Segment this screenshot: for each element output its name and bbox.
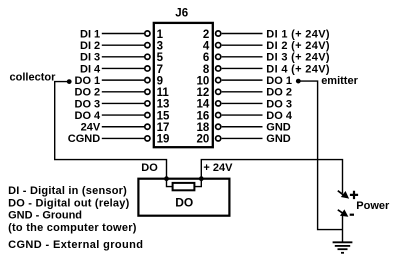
svg-text:10: 10 — [197, 75, 210, 87]
relay box DO — [138, 179, 229, 216]
wire DI 4 to pin 7 — [102, 67, 145, 69]
wire 24V to pin 17 — [102, 126, 145, 128]
pin 3 pad — [145, 43, 150, 48]
wire emitter from DO 1 down to ground rail — [298, 81, 342, 230]
svg-text:GND - Ground: GND - Ground — [8, 210, 82, 222]
svg-text:24V: 24V — [81, 122, 101, 134]
pin 7 pad — [145, 66, 150, 71]
svg-text:16: 16 — [197, 110, 210, 122]
pin 12 pad — [216, 89, 221, 94]
pin 5 pad — [145, 54, 150, 59]
svg-text:CGND: CGND — [68, 133, 100, 145]
svg-text:DO 2: DO 2 — [75, 87, 101, 99]
pin 2 pad — [216, 31, 221, 36]
wire DI 1 to pin 1 — [102, 33, 145, 35]
svg-text:DI 4: DI 4 — [80, 63, 101, 75]
svg-text:DO 3: DO 3 — [266, 98, 292, 110]
svg-text:collector: collector — [10, 72, 57, 84]
label + (power plus) — [350, 191, 358, 199]
svg-text:DI 3 (+ 24V): DI 3 (+ 24V) — [266, 52, 330, 64]
svg-text:6: 6 — [203, 52, 209, 64]
svg-text:DO: DO — [141, 162, 158, 174]
wire pin 12 to DO 2 — [222, 91, 263, 93]
wire pin 2 to DI 1 (+ 24V) — [222, 33, 263, 35]
label - (power minus) — [350, 214, 354, 216]
wire pin 20 to GND — [222, 137, 263, 139]
pin 19 pad — [145, 136, 150, 141]
wire DI 3 to pin 5 — [102, 56, 145, 58]
svg-text:Power: Power — [356, 200, 390, 212]
svg-text:13: 13 — [157, 99, 170, 111]
junction dot DO node on box top — [164, 176, 169, 181]
svg-text:DI 2: DI 2 — [80, 40, 100, 52]
svg-text:17: 17 — [157, 122, 170, 134]
ground symbol — [333, 242, 353, 253]
svg-text:14: 14 — [197, 99, 210, 111]
Power minus terminal arrow — [338, 210, 344, 214]
pin 14 pad — [216, 101, 221, 106]
connector J6 body — [154, 23, 213, 147]
wire collector to DO 1 and down to DO relay box — [55, 82, 167, 179]
Power plus terminal arrow — [338, 191, 344, 196]
wire pin 8 to DI 4 (+ 24V) — [222, 67, 263, 69]
svg-text:DO 1: DO 1 — [266, 75, 292, 87]
svg-text:18: 18 — [197, 122, 210, 134]
svg-text:+ 24V: + 24V — [203, 162, 233, 174]
wire pin 4 to DI 2 (+ 24V) — [222, 44, 263, 46]
wire DO 4 to pin 15 — [102, 114, 145, 116]
wire pin 14 to DO 3 — [222, 102, 263, 104]
pin 20 pad — [216, 136, 221, 141]
svg-text:(to the computer tower): (to the computer tower) — [8, 222, 137, 234]
svg-text:9: 9 — [157, 75, 163, 87]
svg-text:GND: GND — [266, 133, 291, 145]
svg-text:DI 3: DI 3 — [80, 52, 100, 64]
pin 1 pad — [145, 31, 150, 36]
svg-text:15: 15 — [157, 110, 170, 122]
pin 11 pad — [145, 89, 150, 94]
pin 17 pad — [145, 124, 150, 129]
svg-text:DO 2: DO 2 — [266, 87, 292, 99]
svg-text:8: 8 — [203, 64, 210, 76]
wire CGND to pin 19 — [102, 137, 145, 139]
svg-text:DI 4 (+ 24V): DI 4 (+ 24V) — [266, 63, 330, 75]
wire pin 10 to DO 1 — [222, 79, 263, 81]
resistor (relay coil) stubs — [167, 179, 202, 187]
svg-text:DI 1: DI 1 — [80, 28, 100, 40]
svg-text:20: 20 — [197, 134, 210, 146]
wire pin 16 to DO 4 — [222, 114, 263, 116]
svg-text:7: 7 — [157, 64, 163, 76]
svg-text:DO 3: DO 3 — [75, 98, 101, 110]
wire Power minus to ground — [342, 216, 344, 242]
svg-text:11: 11 — [157, 87, 170, 99]
pin 8 pad — [216, 66, 221, 71]
pin 4 pad — [216, 43, 221, 48]
svg-text:DI 1 (+ 24V): DI 1 (+ 24V) — [266, 28, 330, 40]
wire DO 3 to pin 13 — [102, 102, 145, 104]
svg-text:DO - Digital out (relay): DO - Digital out (relay) — [8, 198, 130, 210]
svg-text:emitter: emitter — [321, 75, 358, 87]
svg-text:19: 19 — [157, 134, 170, 146]
svg-text:1: 1 — [157, 29, 164, 41]
junction dot at DO 1 (emitter tap) — [296, 79, 301, 84]
junction dot +24V node on box top — [199, 176, 204, 181]
svg-text:DO 4: DO 4 — [75, 110, 102, 122]
junction dot at DO 1 (collector tap) — [67, 79, 72, 84]
wire +24V rail to Power plus — [201, 160, 342, 194]
pin 10 pad — [216, 78, 221, 83]
pin 15 pad — [145, 112, 150, 117]
svg-text:5: 5 — [157, 52, 164, 64]
wire pin 18 to GND — [222, 126, 263, 128]
pin 16 pad — [216, 112, 221, 117]
svg-text:DO 1: DO 1 — [75, 75, 101, 87]
svg-text:3: 3 — [157, 41, 163, 53]
svg-text:2: 2 — [203, 29, 209, 41]
wire DO 1 to pin 9 — [102, 79, 145, 81]
wire pin 6 to DI 3 (+ 24V) — [222, 56, 263, 58]
svg-text:DI 2 (+ 24V): DI 2 (+ 24V) — [266, 40, 330, 52]
svg-text:4: 4 — [203, 41, 210, 53]
wire DI 2 to pin 3 — [102, 44, 145, 46]
svg-text:J6: J6 — [175, 7, 188, 19]
pin 13 pad — [145, 101, 150, 106]
pin 18 pad — [216, 124, 221, 129]
svg-text:CGND - External ground: CGND - External ground — [8, 239, 143, 251]
resistor (relay coil) body — [173, 183, 195, 190]
svg-text:12: 12 — [197, 87, 210, 99]
svg-text:DI - Digital in (sensor): DI - Digital in (sensor) — [8, 185, 127, 197]
pin 6 pad — [216, 54, 221, 59]
svg-text:GND: GND — [266, 122, 291, 134]
pin 9 pad — [145, 78, 150, 83]
wire DO 2 to pin 11 — [102, 91, 145, 93]
svg-text:DO 4: DO 4 — [266, 110, 293, 122]
svg-text:DO: DO — [175, 196, 193, 210]
